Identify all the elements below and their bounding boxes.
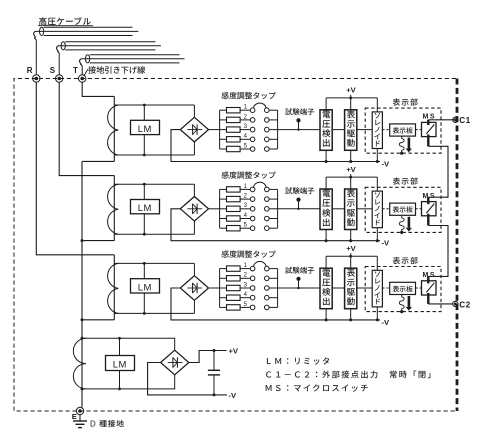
svg-text:ソレノイド: ソレノイド [374, 190, 381, 228]
svg-text:+V: +V [229, 346, 239, 357]
svg-text:-V: -V [382, 158, 391, 169]
junction dots LM3 branch [143, 262, 146, 265]
svg-text:試験端子: 試験端子 [285, 106, 315, 117]
wire: MS3 to C2 [427, 293, 429, 304]
tap contact 5 left (channel 1) [250, 147, 255, 152]
cable T phase end ellipse [86, 55, 90, 63]
tap selector jumper (channel 1) [253, 103, 266, 108]
smoothing capacitor C [213, 351, 215, 371]
svg-text:電圧検出: 電圧検出 [322, 267, 331, 308]
limiter LM1 box [131, 120, 160, 134]
wire: D4 positive output to +V [189, 351, 227, 363]
tap contact 1 left (channel 1) [250, 108, 255, 113]
junction dots LM1 branch [143, 104, 146, 107]
tap contact 2 left (channel 3) [250, 276, 255, 281]
terminal C2 [453, 301, 458, 306]
enclosure right wall (thick dashed) [456, 79, 459, 412]
bridge rectifier D1 diamond [180, 117, 208, 142]
wire: tap output to voltage detector (channel 1) [278, 129, 320, 131]
limiter LM3 branch wire [143, 263, 145, 313]
tap contact 3 left (channel 2) [250, 207, 255, 212]
wire: CT3 secondary bottom [114, 312, 194, 314]
wire: CT1 secondary top [114, 104, 194, 106]
tap contact 1 left (channel 2) [250, 187, 255, 192]
voltage detector box (channel 1) [320, 110, 332, 151]
bridge rectifier D2 diamond [180, 197, 208, 222]
tap resistor 4 (channel 3) [220, 297, 227, 299]
svg-text:-V: -V [382, 238, 391, 249]
wire: D4 negative output to -V [148, 363, 227, 395]
bridge rectifier D4 diode symbol [168, 362, 183, 364]
wire: MS2 to MS3 [427, 214, 429, 226]
limiter LM1 branch wire [143, 105, 145, 155]
svg-text:Ｃ１－Ｃ２：外部接点出力 常時「閉」: Ｃ１－Ｃ２：外部接点出力 常時「閉」 [265, 369, 438, 381]
test terminal (channel 2) [296, 198, 300, 202]
tap resistor left bus (channel 1) [219, 110, 221, 149]
svg-text:C2: C2 [459, 298, 470, 310]
display plate box (channel 3) [390, 282, 416, 294]
wire: driver to solenoid (channel 2) [357, 208, 372, 210]
svg-text:表示部: 表示部 [393, 176, 419, 187]
leader tick for grounding lead label [84, 69, 88, 76]
bridge rectifier D3 diode symbol [187, 287, 202, 289]
svg-text:表示部: 表示部 [393, 255, 419, 266]
junction: spring anchor (channel 1) [400, 152, 403, 155]
limiter LM3 box [131, 279, 160, 293]
tap contact 2 right (channel 2) [265, 197, 270, 202]
svg-text:表示板: 表示板 [393, 283, 414, 293]
wire: detector to display driver (channel 1) [332, 129, 344, 131]
tap contact 4 left (channel 3) [250, 295, 255, 300]
cable S phase conductor lines [65, 41, 155, 43]
voltage detector box (channel 3) [320, 268, 332, 309]
microswitch MS1 box [422, 122, 437, 136]
svg-text:ソレノイド: ソレノイド [374, 111, 381, 149]
wire: CT3 secondary top [114, 262, 194, 264]
tap contact 4 right (channel 1) [265, 137, 270, 142]
terminal E (earth) [76, 407, 83, 414]
wire: phase S feed to CT primary [59, 82, 114, 175]
junction on ground conductor (S) [81, 239, 84, 242]
display unit dashed box (channel 2) [365, 187, 441, 232]
tap contact 2 right (channel 1) [265, 118, 270, 123]
tap contact 3 left (channel 1) [250, 127, 255, 132]
tap resistor 2 (channel 3) [220, 277, 227, 279]
cable S phase drop hook wire [57, 46, 60, 53]
svg-text:表示部: 表示部 [393, 97, 419, 108]
wires: boxes to -V rail (channel 2) [325, 230, 327, 241]
display driver box (channel 2) [345, 189, 357, 230]
wire: power secondary bottom [82, 375, 175, 389]
tap resistor left bus (channel 2) [219, 189, 221, 228]
svg-text:表示駆動: 表示駆動 [347, 267, 356, 308]
bridge rectifier D4 diamond [161, 350, 189, 375]
wire: bridge D3 positive output to tap resistors [209, 287, 220, 289]
CT primary conductor (T channel) [113, 96, 115, 161]
return spring (channel 1) [401, 136, 403, 139]
microswitch MS3 box [422, 281, 437, 295]
wire: C1 to MS1 [428, 119, 454, 121]
svg-text:表示板: 表示板 [393, 204, 414, 214]
wire: CT2 secondary top [114, 183, 194, 185]
test terminal (channel 1) [296, 118, 300, 122]
wire: tap output to voltage detector (channel 3) [278, 287, 320, 289]
tap contact 5 left (channel 2) [250, 226, 255, 231]
wire: driver to solenoid (channel 3) [357, 287, 372, 289]
tap contact 3 right (channel 2) [265, 207, 270, 212]
tap contact 3 right (channel 3) [265, 286, 270, 291]
wire: power secondary top [82, 338, 175, 350]
tap contact 3 left (channel 3) [250, 286, 255, 291]
tap selector jumper (channel 2) [253, 182, 266, 187]
wire: tap output to voltage detector (channel 2) [278, 208, 320, 210]
cable R phase conductor lines [44, 26, 133, 28]
limiter LM2 box [131, 200, 160, 214]
wire: bridge D1 positive output to tap resistors [209, 129, 220, 131]
tap contact 4 right (channel 2) [265, 216, 270, 221]
svg-text:R: R [27, 65, 33, 76]
mechanical link display plate to microswitch (channel 1) [416, 129, 430, 131]
wire: phase T feed to CT primary [82, 82, 114, 96]
display unit dashed box (channel 3) [365, 267, 441, 312]
tap resistor 5 (channel 1) [220, 148, 227, 150]
svg-text:電圧検出: 電圧検出 [322, 108, 331, 149]
microswitch MS2 box [422, 202, 437, 216]
junction dots LM2 branch [143, 183, 146, 186]
ground conductor (common earth lead) [81, 161, 83, 407]
microswitch MS2 contact blade [426, 204, 434, 214]
tap resistor 4 (channel 1) [220, 138, 227, 140]
wires: boxes to -V rail (channel 1) [325, 150, 327, 161]
mechanical link display plate to microswitch (channel 2) [416, 208, 430, 210]
microswitch MS3 contact blade [426, 283, 434, 293]
limiter LM4 box [106, 356, 135, 371]
tap output bus (channel 2) [277, 189, 279, 228]
svg-text:表示駆動: 表示駆動 [347, 108, 356, 149]
tap resistor 5 (channel 2) [220, 227, 227, 229]
tap contact 2 right (channel 3) [265, 276, 270, 281]
limiter LM4 branch wire [119, 338, 121, 389]
terminal T [79, 75, 86, 82]
display plate box (channel 2) [390, 203, 416, 215]
limiter LM2 branch wire [143, 184, 145, 234]
svg-text:ＭＳ：マイクロスイッチ: ＭＳ：マイクロスイッチ [265, 382, 370, 394]
svg-text:T: T [73, 65, 78, 76]
solenoid box (channel 2) [372, 191, 382, 228]
CT3 secondary winding arcs [108, 263, 119, 313]
mechanical link solenoid-display plate (channel 1) [382, 129, 389, 131]
tap resistor 1 (channel 1) [220, 109, 227, 111]
svg-text:LM: LM [138, 121, 152, 135]
terminal S [56, 75, 63, 82]
svg-text:+V: +V [346, 164, 356, 175]
junction: ground conductor to power secondary [81, 337, 84, 340]
tap resistor 3 (channel 1) [220, 129, 227, 131]
wire: bridge D3 negative output to -V rail [171, 288, 380, 320]
tap resistor 1 (channel 2) [220, 188, 227, 190]
tap contact 1 left (channel 3) [250, 266, 255, 271]
wire: driver to solenoid (channel 1) [357, 129, 372, 131]
wire: detector to display driver (channel 3) [332, 287, 344, 289]
solenoid box (channel 1) [372, 112, 382, 149]
svg-text:試験端子: 試験端子 [285, 265, 315, 276]
junction dots LM4 [118, 337, 121, 340]
cable R phase lead-in wire [35, 40, 37, 75]
cable R phase drop hook wire [34, 31, 37, 40]
+V supply wire (channel 3) [326, 255, 377, 257]
svg-text:ソレノイド: ソレノイド [374, 270, 381, 308]
wire: MS1 to MS2 [427, 135, 429, 147]
wire: CT primary return to ground conductor (S) [82, 240, 114, 242]
tap contact 4 left (channel 2) [250, 216, 255, 221]
wires: boxes to -V rail (channel 3) [325, 309, 327, 320]
wire: bridge D2 positive output to tap resistors [209, 208, 220, 210]
tap contact 5 right (channel 3) [265, 305, 270, 310]
svg-text:D 種接地: D 種接地 [90, 419, 125, 430]
cable S phase end ellipse [61, 42, 65, 50]
enclosure dashed border (left/top/bottom) [14, 79, 456, 412]
tap contact 1 right (channel 3) [265, 266, 270, 271]
wire: CT2 secondary bottom [114, 233, 194, 235]
+V supply wire (channel 1) [326, 97, 377, 99]
wire: detector to display driver (channel 2) [332, 208, 344, 210]
wire: bridge D2 negative output to -V rail [171, 209, 380, 241]
tap contact 3 right (channel 1) [265, 127, 270, 132]
tap output bus (channel 1) [277, 110, 279, 149]
junction: spring anchor (channel 2) [400, 231, 403, 234]
wire: CT primary return to ground conductor (R) [82, 319, 114, 321]
tap resistor 4 (channel 2) [220, 218, 227, 220]
tap resistor 5 (channel 3) [220, 306, 227, 308]
svg-text:-V: -V [229, 390, 238, 401]
bridge rectifier D2 diode symbol [187, 208, 202, 210]
mechanical link solenoid-display plate (channel 2) [382, 208, 389, 210]
junction: spring anchor (channel 3) [400, 310, 403, 313]
terminal C1 [453, 117, 458, 122]
cable R phase end ellipse [40, 27, 44, 35]
earth ground symbol [79, 415, 81, 421]
power CT secondary winding arcs [73, 338, 86, 389]
return spring (channel 2) [401, 215, 403, 218]
svg-text:表示駆動: 表示駆動 [347, 188, 356, 229]
display plate box (channel 1) [390, 124, 416, 136]
drop-direction arrow (channel 2) [408, 217, 411, 228]
svg-text:表示板: 表示板 [393, 125, 414, 135]
CT primary conductor (S channel) [113, 176, 115, 241]
svg-text:S: S [50, 65, 56, 76]
svg-text:ＬＭ：リミッタ: ＬＭ：リミッタ [265, 355, 332, 367]
cable T phase lead-in wire [81, 66, 83, 75]
display driver box (channel 1) [345, 110, 357, 151]
CT1 secondary winding arcs [108, 105, 119, 155]
tap resistor left bus (channel 3) [219, 269, 221, 308]
bridge rectifier D1 diode symbol [187, 129, 202, 131]
tap contact 5 right (channel 1) [265, 147, 270, 152]
mechanical link solenoid-display plate (channel 3) [382, 287, 389, 289]
tap contact 1 right (channel 1) [265, 108, 270, 113]
svg-text:+V: +V [346, 243, 356, 254]
tap contact 5 right (channel 2) [265, 226, 270, 231]
svg-text:感度調整タップ: 感度調整タップ [221, 170, 276, 181]
solenoid box (channel 3) [372, 270, 382, 307]
cable T phase conductor lines [90, 54, 180, 56]
tap contact 2 left (channel 1) [250, 118, 255, 123]
svg-text:電圧検出: 電圧検出 [322, 188, 331, 229]
microswitch MS1 contact blade [426, 124, 434, 133]
return spring (channel 3) [401, 295, 403, 298]
svg-text:-V: -V [382, 317, 391, 328]
cable S phase lead-in wire [58, 53, 60, 75]
+V supply wire (channel 2) [326, 176, 377, 178]
tap contact 1 right (channel 2) [265, 187, 270, 192]
tap contact 2 left (channel 2) [250, 197, 255, 202]
wire: bridge D1 negative output to -V rail [171, 130, 380, 162]
tap contact 4 left (channel 1) [250, 137, 255, 142]
junction dots capacitor [213, 349, 216, 352]
svg-text:LM: LM [138, 279, 152, 293]
tap contact 4 right (channel 3) [265, 295, 270, 300]
tap output bus (channel 3) [277, 269, 279, 308]
svg-text:LM: LM [138, 200, 152, 214]
wire: CT1 secondary bottom [114, 154, 194, 156]
svg-text:感度調整タップ: 感度調整タップ [221, 249, 276, 260]
junction on ground conductor (R) [81, 318, 84, 321]
tap resistor 2 (channel 2) [220, 198, 227, 200]
cable T phase drop hook wire [80, 59, 83, 66]
terminal R [33, 75, 40, 82]
bridge rectifier D3 diamond [180, 276, 208, 301]
tap resistor 1 (channel 3) [220, 268, 227, 270]
drop-direction arrow (channel 1) [408, 138, 411, 149]
svg-text:感度調整タップ: 感度調整タップ [221, 91, 276, 102]
drop-direction arrow (channel 3) [408, 296, 411, 307]
CT primary conductor (R channel) [113, 255, 115, 320]
tap selector jumper (channel 3) [253, 261, 266, 266]
mechanical link display plate to microswitch (channel 3) [416, 287, 430, 289]
display driver box (channel 3) [345, 268, 357, 309]
tap resistor 3 (channel 3) [220, 287, 227, 289]
svg-text:LM: LM [113, 356, 127, 370]
wire: CT primary return to ground conductor (T) [82, 160, 114, 162]
tap contact 5 left (channel 3) [250, 305, 255, 310]
wire: phase R feed to CT primary [36, 82, 114, 255]
tap resistor 2 (channel 1) [220, 119, 227, 121]
test terminal (channel 3) [296, 277, 300, 281]
svg-text:接地引き下げ線: 接地引き下げ線 [88, 64, 146, 76]
display unit dashed box (channel 1) [365, 108, 441, 153]
svg-text:+V: +V [346, 85, 356, 96]
svg-text:試験端子: 試験端子 [285, 186, 315, 197]
tap resistor 3 (channel 2) [220, 208, 227, 210]
svg-text:C1: C1 [459, 114, 470, 126]
CT2 secondary winding arcs [108, 184, 119, 234]
voltage detector box (channel 2) [320, 189, 332, 230]
